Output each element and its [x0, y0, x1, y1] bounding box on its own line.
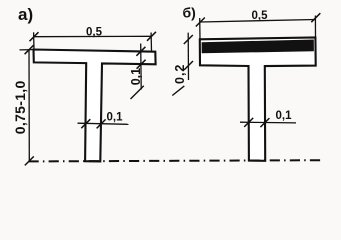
svg-text:б): б): [183, 5, 196, 21]
dimension line 0,5 (left beam top): [34, 35, 153, 37]
T-beam outline (flange + web): [34, 50, 156, 162]
tick at web left: [81, 119, 90, 128]
tick at flange top: [184, 35, 193, 44]
leader slash below text: [131, 86, 144, 99]
dimension line 0,1 flange thickness (vertical at right): [140, 44, 143, 90]
dimension line 0,5 (right beam top): [200, 20, 316, 23]
svg-text:0,5: 0,5: [86, 27, 103, 39]
extension line right: [314, 16, 316, 38]
tick bottom: [25, 156, 34, 165]
tick at flange top: [136, 47, 145, 56]
tick right end: [311, 13, 320, 22]
tick left end of 0,5: [30, 32, 39, 41]
tick at flange bottom: [184, 61, 193, 70]
tick right end of 0,5: [147, 32, 156, 41]
dimension line: [28, 50, 30, 161]
svg-text:0,2: 0,2: [173, 64, 187, 84]
leader slash below text: [172, 86, 184, 96]
extension line left: [33, 32, 35, 50]
svg-text:0,1: 0,1: [276, 110, 293, 122]
svg-text:0,5: 0,5: [252, 10, 269, 22]
centerline (dash-dot) across bottom: [29, 160, 322, 161]
extension line right: [150, 33, 152, 52]
svg-text:0,1: 0,1: [107, 112, 124, 124]
black top layer in flange: [202, 40, 314, 54]
dimension 0,2 (vertical at left of right flange): [187, 33, 189, 80]
tick at flange bottom: [137, 60, 146, 69]
svg-text:0,1: 0,1: [129, 68, 143, 85]
extension line left: [199, 18, 201, 40]
tick at web right: [97, 119, 106, 128]
top extension (horizontal from flange corner): [20, 49, 35, 51]
tick at web left: [244, 118, 253, 127]
tick at web right: [260, 118, 269, 127]
tick left end: [196, 18, 205, 27]
T-beam outline (flange + web): [200, 37, 316, 160]
dimension line 0,1 web width (left beam): [78, 123, 129, 124]
svg-text:а): а): [18, 5, 33, 24]
tick top: [25, 45, 34, 54]
svg-text:0,75-1,0: 0,75-1,0: [12, 80, 28, 134]
dimension line 0,1 web width (right beam): [240, 121, 296, 124]
